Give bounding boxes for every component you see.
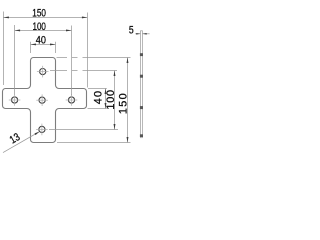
hole top [37,66,49,78]
svg-text:40: 40 [92,91,104,104]
svg-text:100: 100 [33,21,46,33]
svg-text:150: 150 [118,93,130,114]
svg-text:40: 40 [36,35,46,47]
side view plate [140,31,143,138]
hole left [9,94,21,106]
dimension 40 top [31,35,56,53]
svg-text:100: 100 [105,90,117,110]
hole center [36,94,48,106]
leader diameter 13 [3,131,40,152]
cross plate outline [3,58,87,143]
dimension 5 side view [129,25,150,37]
dimension 150 right [57,58,131,143]
hole right [66,94,78,106]
hole bottom [36,124,48,136]
dimension 100 top [15,21,72,95]
dimension 40 right [88,89,107,109]
svg-text:5: 5 [129,25,134,37]
dimension 150 top [3,8,87,88]
dimension 100 right [49,71,118,130]
svg-text:150: 150 [32,8,46,20]
